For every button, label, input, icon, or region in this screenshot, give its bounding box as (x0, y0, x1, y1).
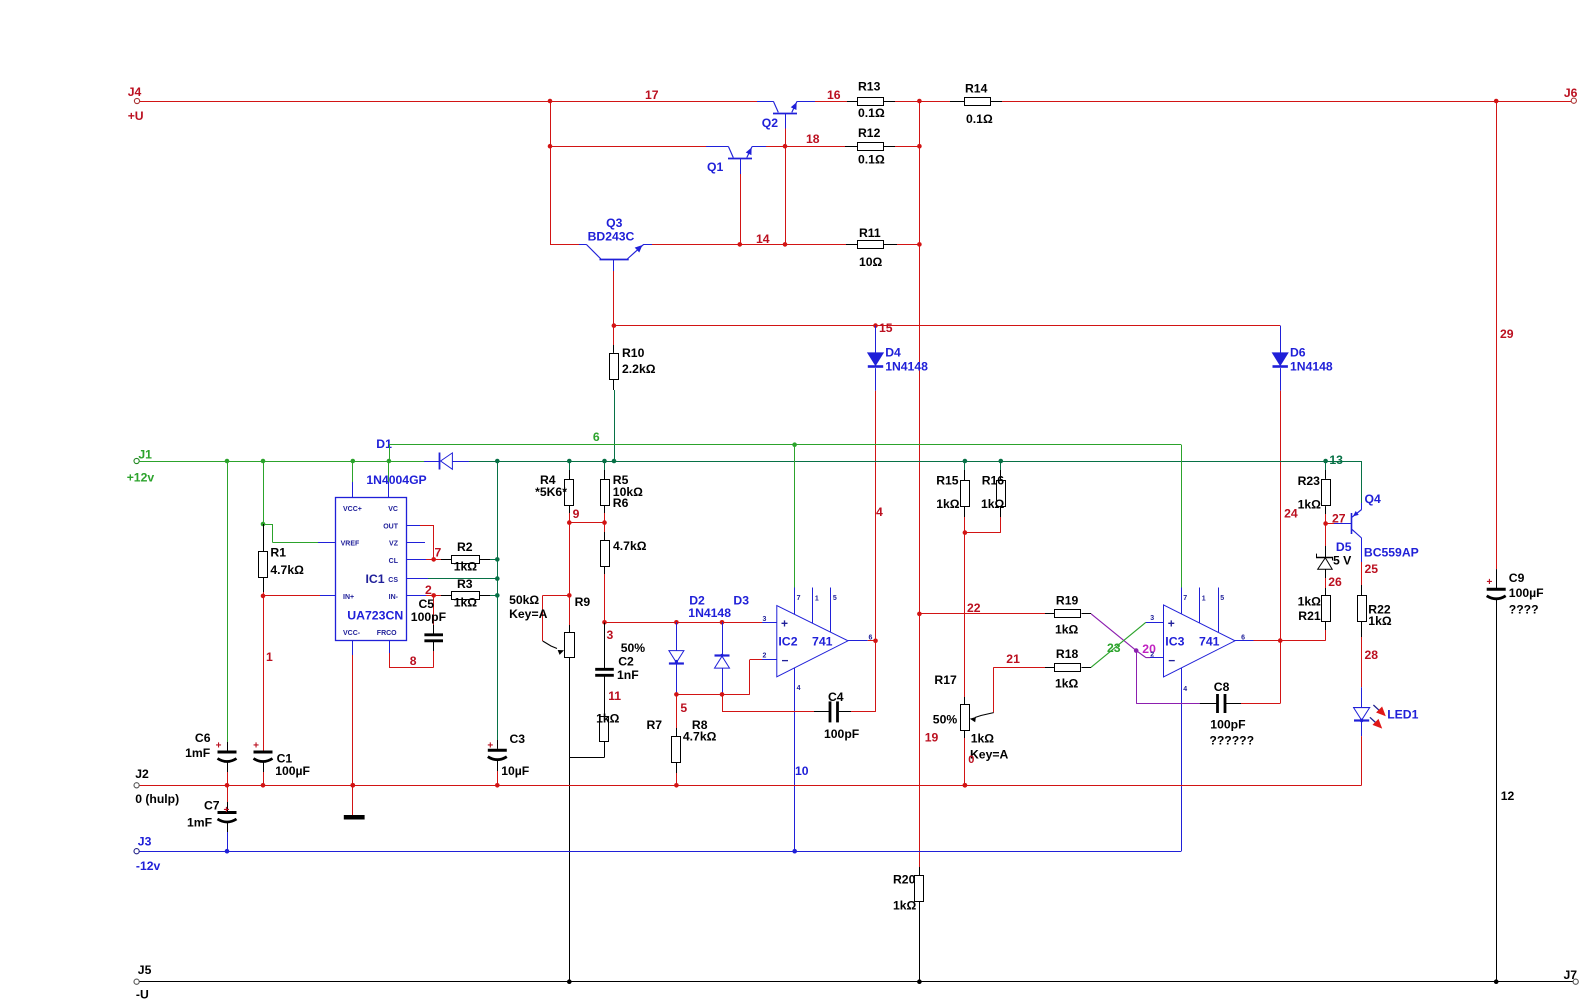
svg-text:D3: D3 (733, 594, 749, 608)
svg-text:1mF: 1mF (187, 816, 212, 830)
svg-text:BC559AP: BC559AP (1364, 546, 1419, 560)
svg-text:J5: J5 (138, 963, 152, 977)
svg-text:OUT: OUT (383, 524, 399, 531)
svg-text:10Ω: 10Ω (859, 255, 883, 269)
svg-text:C4: C4 (828, 690, 844, 704)
svg-text:4.7kΩ: 4.7kΩ (683, 730, 717, 744)
svg-text:6: 6 (593, 430, 600, 444)
svg-text:5: 5 (680, 701, 687, 715)
svg-text:3: 3 (763, 616, 767, 623)
svg-text:100pF: 100pF (824, 727, 859, 741)
svg-text:Q4: Q4 (1365, 492, 1381, 506)
svg-text:1mF: 1mF (185, 746, 210, 760)
svg-text:+: + (224, 805, 230, 816)
svg-text:19: 19 (925, 731, 939, 745)
svg-text:24: 24 (1284, 507, 1298, 521)
svg-text:R17: R17 (934, 673, 957, 687)
svg-text:5: 5 (833, 595, 837, 602)
svg-text:1: 1 (1202, 596, 1206, 603)
svg-text:VCC-: VCC- (343, 630, 361, 637)
svg-text:14: 14 (756, 232, 770, 246)
svg-text:1kΩ: 1kΩ (936, 497, 960, 511)
svg-text:R7: R7 (647, 718, 663, 732)
svg-text:0.1Ω: 0.1Ω (858, 153, 885, 167)
svg-text:4: 4 (797, 685, 801, 692)
svg-text:C5: C5 (419, 597, 435, 611)
svg-text:R20: R20 (893, 873, 916, 887)
svg-text:29: 29 (1500, 327, 1514, 341)
svg-text:2: 2 (1150, 652, 1154, 659)
svg-text:4: 4 (876, 505, 883, 519)
svg-text:7: 7 (797, 595, 801, 602)
svg-text:Q3: Q3 (606, 216, 622, 230)
svg-text:R23: R23 (1298, 474, 1321, 488)
svg-text:15: 15 (879, 321, 893, 335)
svg-text:-12v: -12v (136, 859, 161, 873)
svg-text:C9: C9 (1509, 571, 1525, 585)
svg-text:26: 26 (1328, 575, 1342, 589)
svg-text:LED1: LED1 (1387, 708, 1418, 722)
svg-text:R14: R14 (965, 82, 988, 96)
svg-text:R13: R13 (858, 80, 881, 94)
svg-text:1kΩ: 1kΩ (454, 560, 478, 574)
svg-text:100pF: 100pF (1210, 718, 1245, 732)
svg-text:+: + (781, 617, 788, 631)
svg-text:D4: D4 (885, 346, 901, 360)
svg-text:*5K6*: *5K6* (535, 485, 567, 499)
svg-text:+: + (1168, 617, 1175, 631)
svg-text:1kΩ: 1kΩ (971, 732, 995, 746)
svg-text:16: 16 (827, 88, 841, 102)
svg-text:R6: R6 (613, 496, 629, 510)
svg-text:0.1Ω: 0.1Ω (966, 112, 993, 126)
svg-text:8: 8 (410, 654, 417, 668)
svg-text:??????: ?????? (1209, 734, 1254, 748)
svg-text:C2: C2 (618, 655, 634, 669)
svg-text:R16: R16 (982, 474, 1005, 488)
svg-text:50%: 50% (933, 713, 958, 727)
svg-text:1kΩ: 1kΩ (893, 899, 917, 913)
svg-text:BD243C: BD243C (588, 229, 635, 243)
svg-text:+: + (253, 741, 259, 752)
svg-text:1N4004GP: 1N4004GP (366, 473, 426, 487)
svg-text:Key=A: Key=A (509, 607, 547, 621)
svg-text:22: 22 (967, 601, 981, 615)
svg-text:1nF: 1nF (617, 668, 639, 682)
svg-text:+12v: +12v (127, 471, 155, 485)
svg-text:1kΩ: 1kΩ (1055, 676, 1079, 690)
svg-text:100pF: 100pF (411, 610, 446, 624)
svg-text:CS: CS (388, 577, 398, 584)
svg-text:12: 12 (1501, 789, 1515, 803)
svg-text:VREF: VREF (341, 541, 360, 548)
svg-text:CL: CL (389, 558, 399, 565)
svg-text:-U: -U (136, 988, 149, 1002)
svg-text:1kΩ: 1kΩ (596, 712, 620, 726)
svg-text:1N4148: 1N4148 (1290, 360, 1333, 374)
svg-text:18: 18 (806, 132, 820, 146)
svg-text:100µF: 100µF (1509, 586, 1544, 600)
svg-text:J3: J3 (138, 835, 152, 849)
svg-text:C3: C3 (510, 732, 526, 746)
svg-text:VC: VC (388, 506, 398, 513)
svg-text:21: 21 (1006, 652, 1020, 666)
svg-text:10µF: 10µF (501, 764, 529, 778)
svg-text:3: 3 (607, 628, 614, 642)
svg-text:1: 1 (815, 596, 819, 603)
svg-text:D6: D6 (1290, 346, 1306, 360)
svg-text:5 V: 5 V (1333, 554, 1352, 568)
svg-text:0: 0 (968, 754, 974, 766)
svg-text:UA723CN: UA723CN (347, 609, 403, 623)
svg-text:2: 2 (425, 583, 432, 597)
svg-text:R19: R19 (1056, 594, 1079, 608)
svg-text:J4: J4 (128, 85, 142, 99)
svg-text:13: 13 (1329, 453, 1343, 467)
svg-text:1kΩ: 1kΩ (454, 596, 478, 610)
svg-text:1kΩ: 1kΩ (1298, 497, 1322, 511)
svg-text:741: 741 (812, 635, 833, 649)
svg-text:741: 741 (1199, 635, 1220, 649)
svg-text:R11: R11 (859, 226, 881, 240)
svg-text:17: 17 (645, 88, 659, 102)
svg-text:Key=A: Key=A (970, 748, 1008, 762)
svg-text:R21: R21 (1298, 609, 1321, 623)
svg-text:C8: C8 (1214, 680, 1230, 694)
svg-text:IC1: IC1 (366, 572, 385, 586)
svg-text:R9: R9 (575, 595, 591, 609)
svg-text:1kΩ: 1kΩ (1055, 623, 1079, 637)
svg-text:R10: R10 (622, 346, 645, 360)
svg-text:C6: C6 (195, 731, 211, 745)
svg-text:11: 11 (608, 689, 621, 703)
svg-text:−: − (782, 654, 789, 668)
svg-text:−: − (1168, 654, 1175, 668)
svg-text:J2: J2 (135, 767, 149, 781)
svg-text:R18: R18 (1056, 647, 1079, 661)
svg-text:J6: J6 (1564, 86, 1578, 100)
svg-text:4.7kΩ: 4.7kΩ (613, 539, 647, 553)
svg-text:+U: +U (128, 109, 144, 123)
svg-text:1kΩ: 1kΩ (1298, 595, 1322, 609)
svg-text:10: 10 (795, 764, 809, 778)
svg-text:50%: 50% (621, 641, 646, 655)
svg-text:IC3: IC3 (1165, 635, 1184, 649)
svg-text:7: 7 (435, 546, 442, 560)
svg-text:4: 4 (1183, 686, 1187, 693)
svg-text:25: 25 (1365, 562, 1379, 576)
svg-text:0.1Ω: 0.1Ω (858, 106, 885, 120)
svg-text:1kΩ: 1kΩ (981, 497, 1005, 511)
svg-text:Q1: Q1 (707, 160, 723, 174)
svg-text:9: 9 (573, 507, 580, 521)
svg-text:VCC+: VCC+ (343, 506, 362, 513)
svg-text:D5: D5 (1336, 540, 1352, 554)
svg-text:2: 2 (763, 653, 767, 660)
svg-text:0 (hulp): 0 (hulp) (135, 792, 179, 806)
svg-text:????: ???? (1509, 603, 1539, 617)
svg-text:R1: R1 (270, 546, 286, 560)
svg-text:Q2: Q2 (762, 116, 778, 130)
svg-text:IN-: IN- (389, 594, 399, 601)
svg-text:7: 7 (1183, 595, 1187, 602)
svg-text:IN+: IN+ (343, 594, 354, 601)
svg-text:R12: R12 (858, 126, 881, 140)
svg-text:1kΩ: 1kΩ (1368, 614, 1392, 628)
svg-text:+: + (1487, 577, 1493, 588)
svg-text:4.7kΩ: 4.7kΩ (270, 563, 304, 577)
svg-text:28: 28 (1365, 648, 1379, 662)
svg-text:FRCO: FRCO (377, 630, 397, 637)
svg-text:R2: R2 (457, 540, 473, 554)
svg-text:R15: R15 (936, 474, 959, 488)
svg-text:100µF: 100µF (275, 764, 310, 778)
svg-text:+: + (487, 741, 493, 752)
svg-text:1N4148: 1N4148 (885, 360, 928, 374)
svg-text:1N4148: 1N4148 (688, 606, 731, 620)
svg-text:5: 5 (1220, 595, 1224, 602)
svg-text:J1: J1 (138, 448, 152, 462)
svg-text:23: 23 (1107, 641, 1121, 655)
svg-text:2.2kΩ: 2.2kΩ (622, 362, 656, 376)
svg-text:VZ: VZ (389, 541, 399, 548)
svg-text:1: 1 (266, 650, 273, 664)
svg-text:C7: C7 (204, 799, 220, 813)
svg-text:IC2: IC2 (778, 635, 797, 649)
svg-text:R3: R3 (457, 577, 473, 591)
svg-text:50kΩ: 50kΩ (509, 593, 539, 607)
svg-text:+: + (216, 741, 222, 752)
svg-text:3: 3 (1150, 615, 1154, 622)
